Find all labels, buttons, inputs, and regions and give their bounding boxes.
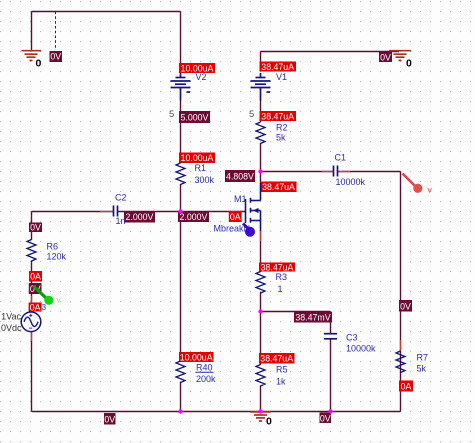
svg-text:0A: 0A bbox=[230, 212, 241, 222]
dashed red stub below M1 source bbox=[260, 231, 262, 241]
bias label 0A (R7) bbox=[399, 381, 413, 392]
svg-text:10.00uA: 10.00uA bbox=[181, 153, 214, 163]
bias label 0V (bottom-left) bbox=[104, 413, 116, 425]
ground 0 bottom bbox=[251, 412, 271, 421]
battery V2 bbox=[171, 73, 191, 101]
wire R40 to bottom rail bbox=[180, 382, 182, 412]
resistor R2 bbox=[256, 122, 265, 144]
svg-text:M1: M1 bbox=[234, 194, 247, 204]
svg-text:1Vac: 1Vac bbox=[1, 312, 21, 322]
dashed red stub above R7 bbox=[400, 340, 402, 351]
junction node (ground bottom) bbox=[258, 409, 262, 413]
svg-text:0V: 0V bbox=[104, 414, 115, 424]
resistor R40 bbox=[176, 361, 185, 383]
wire C1 to right corner bbox=[338, 171, 401, 173]
wire R5 to bottom rail bbox=[260, 386, 262, 412]
wire gate node to R40 bbox=[180, 212, 182, 362]
bias label 2.000V (left) bbox=[124, 211, 155, 223]
svg-text:C2: C2 bbox=[115, 193, 127, 203]
dashed red stub C1 left bbox=[322, 171, 333, 173]
svg-text:38.47uA: 38.47uA bbox=[261, 111, 294, 121]
svg-text:V2: V2 bbox=[196, 72, 207, 82]
ac source V3 bbox=[21, 312, 41, 332]
bias label 0A (R6) bbox=[29, 271, 42, 282]
wire R1 to gate node bbox=[180, 184, 182, 212]
svg-text:0A: 0A bbox=[401, 382, 412, 392]
svg-text:R6: R6 bbox=[47, 242, 59, 252]
bias label 0A (V3) bbox=[29, 303, 42, 312]
wire R6 to V3 bbox=[31, 261, 33, 314]
svg-text:300k: 300k bbox=[195, 175, 215, 185]
bias label 4.808V bbox=[225, 170, 255, 182]
bias label 38.47mV bbox=[294, 312, 332, 323]
capacitor C2 bbox=[114, 206, 118, 217]
svg-text:R5: R5 bbox=[276, 365, 288, 375]
junction node (gate) bbox=[178, 209, 182, 213]
bias label 10.00uA (V2) bbox=[179, 63, 215, 73]
svg-text:1k: 1k bbox=[276, 377, 286, 387]
svg-text:5k: 5k bbox=[276, 133, 286, 143]
svg-text:C1: C1 bbox=[335, 153, 347, 163]
bias label 10.00uA (R40) bbox=[179, 352, 214, 362]
svg-text:C3: C3 bbox=[346, 333, 358, 343]
wire V3 to bottom rail bbox=[31, 331, 33, 412]
svg-text:V1: V1 bbox=[276, 72, 287, 82]
wire V1 bottom to R2 bbox=[260, 101, 262, 123]
svg-text:2.000V: 2.000V bbox=[180, 212, 208, 222]
svg-text:0: 0 bbox=[406, 58, 412, 70]
wire left rail upper bbox=[31, 212, 33, 241]
dashed net stub top-left 0V bbox=[55, 12, 57, 51]
svg-text:0Vdc: 0Vdc bbox=[1, 323, 22, 333]
wire R3 to node bbox=[260, 292, 262, 312]
svg-text:5k: 5k bbox=[417, 364, 427, 374]
wire C3 top stub bbox=[330, 312, 332, 334]
svg-text:R1: R1 bbox=[195, 163, 207, 173]
svg-text:10000k: 10000k bbox=[346, 344, 376, 354]
resistor R3 bbox=[256, 272, 265, 294]
bias label 0A (gate) bbox=[229, 211, 242, 222]
battery V1 bbox=[251, 73, 271, 101]
wire left ground stub bbox=[31, 12, 33, 51]
svg-text:200k: 200k bbox=[196, 374, 216, 384]
wire right rail bbox=[400, 172, 402, 412]
bias label 38.47uA (R5) bbox=[259, 353, 295, 364]
svg-text:120k: 120k bbox=[47, 252, 67, 262]
wire gate horizontal right segment bbox=[118, 211, 246, 213]
svg-text:0V: 0V bbox=[320, 413, 331, 423]
svg-text:0V: 0V bbox=[50, 52, 61, 62]
svg-text:38.47mV: 38.47mV bbox=[295, 312, 330, 322]
bias label 38.47uA (R2) bbox=[260, 111, 297, 121]
svg-text:R3: R3 bbox=[276, 272, 288, 282]
svg-text:38.47uA: 38.47uA bbox=[261, 263, 294, 273]
probe green (V marker) bbox=[34, 286, 47, 299]
probe purple (M1) bbox=[243, 224, 248, 229]
bias label 38.47uA (M1 drain) bbox=[261, 182, 297, 193]
svg-text:5: 5 bbox=[249, 109, 254, 120]
junction node (R3/R5) bbox=[258, 309, 262, 313]
wire node to R5 bbox=[260, 312, 262, 366]
junction node (R40 bottom) bbox=[178, 409, 182, 413]
svg-text:38.47uA: 38.47uA bbox=[260, 354, 293, 364]
svg-text:0: 0 bbox=[266, 416, 272, 428]
resistor R6 bbox=[27, 240, 36, 262]
bias label 38.47uA (R3) bbox=[259, 263, 295, 272]
svg-text:2.000V: 2.000V bbox=[126, 212, 154, 222]
ground 0 top-left bbox=[22, 51, 42, 61]
svg-text:R40: R40 bbox=[196, 363, 213, 373]
junction node (drain) bbox=[258, 169, 262, 173]
svg-text:1n: 1n bbox=[116, 216, 126, 226]
svg-text:3: 3 bbox=[42, 303, 47, 312]
wire node to C3 horizontal bbox=[261, 311, 331, 313]
wire V2 bottom to R1 bbox=[180, 101, 182, 164]
svg-text:R2: R2 bbox=[276, 123, 288, 133]
svg-text:0V: 0V bbox=[400, 301, 411, 311]
svg-text:10000k: 10000k bbox=[336, 177, 366, 187]
bias label 0V (top-left) bbox=[50, 51, 63, 62]
wire drain node down bbox=[260, 172, 262, 184]
svg-text:0: 0 bbox=[36, 58, 42, 70]
wire drain node to C1 bbox=[261, 171, 334, 173]
probe red (V marker) bbox=[403, 174, 417, 188]
mosfet M1 bbox=[246, 183, 261, 231]
svg-text:10.00uA: 10.00uA bbox=[180, 352, 213, 362]
wire top-right horizontal bbox=[261, 51, 400, 53]
svg-text:5.000V: 5.000V bbox=[181, 112, 209, 122]
dashed red stub V3 bottom bbox=[31, 331, 33, 341]
wire C3 bottom bbox=[330, 339, 332, 412]
bias label 0V (V3 top) bbox=[29, 283, 42, 294]
bias label 2.000V (right) bbox=[178, 211, 209, 222]
capacitor C1 bbox=[334, 166, 338, 177]
junction node (C3 bottom) bbox=[328, 409, 332, 413]
wire V2 top bbox=[180, 12, 182, 67]
dashed red stub V3 top bbox=[31, 296, 33, 303]
bias label 0V (left rail) bbox=[29, 223, 42, 233]
wire top-left horizontal bbox=[32, 11, 181, 13]
wire gate horizontal left segment bbox=[32, 211, 114, 213]
capacitor C3 bbox=[324, 334, 337, 339]
svg-text:0V: 0V bbox=[380, 52, 391, 62]
svg-text:4.808V: 4.808V bbox=[226, 171, 254, 181]
bias label 10.00uA (R1) bbox=[179, 153, 215, 164]
ground 0 top-right bbox=[389, 51, 411, 61]
svg-text:1: 1 bbox=[278, 284, 283, 294]
wire bottom rail bbox=[32, 411, 401, 413]
svg-text:0V: 0V bbox=[30, 222, 41, 232]
bias label 0V (right rail) bbox=[399, 300, 412, 312]
resistor R5 bbox=[256, 365, 265, 387]
wire V1 top bbox=[260, 52, 262, 67]
dashed red stub near C2 bbox=[100, 211, 113, 213]
wire M1 source to R3 bbox=[260, 231, 262, 272]
bias label 5.000V bbox=[179, 111, 210, 123]
bias label 38.47uA (V1) bbox=[260, 62, 297, 72]
wire R2 to drain node bbox=[260, 143, 262, 172]
bias label 0V (top-right) bbox=[379, 52, 392, 62]
resistor R1 bbox=[176, 163, 185, 185]
dashed red stub C1 right bbox=[338, 171, 350, 173]
svg-text:0A: 0A bbox=[30, 272, 41, 282]
svg-text:R7: R7 bbox=[417, 353, 429, 363]
svg-text:38.47uA: 38.47uA bbox=[261, 62, 294, 72]
svg-text:38.47uA: 38.47uA bbox=[262, 182, 295, 192]
resistor R7 bbox=[396, 351, 405, 373]
svg-text:0A: 0A bbox=[30, 302, 41, 312]
svg-text:5: 5 bbox=[169, 109, 174, 120]
bias label 0V (bottom-mid) bbox=[320, 413, 332, 424]
